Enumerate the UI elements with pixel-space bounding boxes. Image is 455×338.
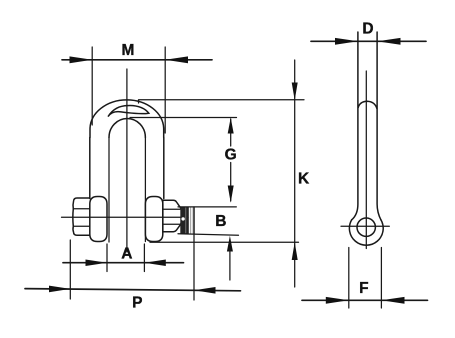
bow crown crescent <box>108 106 149 117</box>
shackle bow outer arc <box>90 100 164 138</box>
K bottom extension line <box>150 241 299 243</box>
dimension F line <box>302 299 428 301</box>
dimension G line upper segment <box>230 119 232 146</box>
right eye boss (pill) <box>145 197 162 242</box>
B bottom arrow <box>227 236 233 252</box>
A left arrow <box>86 260 108 267</box>
right leg outer edge <box>163 138 165 199</box>
bolt head facet line 1 <box>73 208 89 210</box>
svg-text:P: P <box>132 294 142 311</box>
left leg inner edge / A extension line <box>108 138 110 243</box>
dimension G line lower segment <box>230 163 232 202</box>
extension line M right <box>164 47 166 133</box>
eye crosshair horizontal <box>341 225 389 227</box>
pin end cap line <box>193 207 195 234</box>
dimension D line <box>311 40 426 42</box>
dimension M line <box>62 59 212 61</box>
side bar left edge <box>352 32 358 220</box>
right leg inner edge / A extension line <box>144 138 146 242</box>
F right arrow <box>381 297 404 304</box>
pin hatched end block <box>180 207 189 234</box>
svg-text:D: D <box>362 21 373 38</box>
D left arrow <box>335 38 358 45</box>
P left extension line <box>69 240 71 299</box>
B bottom extension line <box>178 234 239 235</box>
B bottom arrow tail <box>229 249 231 280</box>
svg-text:F: F <box>359 280 368 297</box>
bolt head facet line 2 <box>73 225 89 227</box>
F left extension line <box>348 248 350 309</box>
nut facet line 2 <box>163 223 180 225</box>
shackle bow inner arc <box>109 119 145 138</box>
B top extension line <box>178 206 236 208</box>
A right extension line <box>143 244 145 272</box>
dimension M left arrow <box>70 56 93 63</box>
dimension K line <box>294 60 296 287</box>
P right arrow <box>194 287 216 294</box>
eye boss outer circle (side view) <box>349 220 383 245</box>
dimension A line <box>63 262 184 264</box>
side bar right edge <box>377 32 381 220</box>
K top extension line <box>139 100 305 103</box>
svg-text:G: G <box>225 147 237 164</box>
bow crown arc (side view) <box>358 101 377 108</box>
bolt head left <box>73 198 90 235</box>
F right extension line <box>380 248 382 309</box>
K bottom arrow <box>292 242 298 260</box>
left leg outer edge <box>89 138 91 199</box>
A right arrow <box>144 260 165 267</box>
F left arrow <box>326 297 349 304</box>
svg-text:B: B <box>215 213 226 230</box>
P left arrow <box>49 286 70 293</box>
svg-text:K: K <box>298 171 310 188</box>
svg-text:A: A <box>121 246 132 263</box>
P right extension line <box>193 234 195 300</box>
center line vertical (left view) <box>126 69 128 252</box>
pin hole circle <box>357 218 375 236</box>
extension line M left <box>91 47 93 125</box>
K top arrow <box>292 83 298 101</box>
G top arrow <box>228 118 234 134</box>
left eye boss (pill) <box>90 197 107 242</box>
hex nut right <box>163 200 182 231</box>
G top extension line <box>130 117 237 119</box>
svg-text:M: M <box>122 42 135 59</box>
dimension M right arrow <box>165 56 188 63</box>
dimension P line <box>25 289 241 291</box>
A left extension line <box>106 244 108 272</box>
pin centerline <box>62 216 189 218</box>
G bottom arrow <box>228 186 234 203</box>
nut facet line 1 <box>163 208 180 210</box>
side view center line <box>365 71 367 249</box>
D right arrow <box>377 38 400 45</box>
